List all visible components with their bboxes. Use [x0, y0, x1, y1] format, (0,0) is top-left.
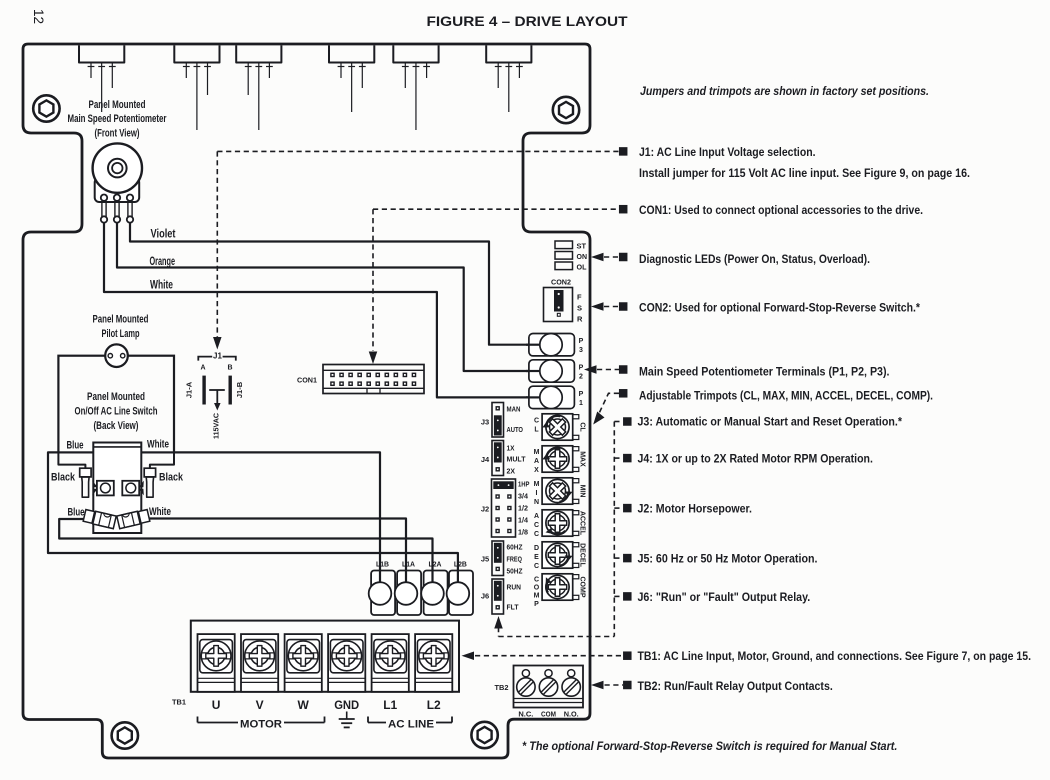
svg-text:L2B: L2B [454, 560, 468, 569]
svg-text:TB1: TB1 [172, 698, 186, 707]
svg-text:FLT: FLT [507, 605, 520, 612]
svg-text:J3: J3 [481, 418, 489, 427]
svg-text:J1-A: J1-A [185, 381, 194, 398]
svg-text:CON1: Used to connect optional: CON1: Used to connect optional accessori… [639, 203, 923, 217]
svg-text:Diagnostic LEDs (Power On, Sta: Diagnostic LEDs (Power On, Status, Overl… [639, 252, 870, 266]
svg-text:M: M [534, 449, 540, 456]
svg-text:TB2: Run/Fault Relay Output Co: TB2: Run/Fault Relay Output Contacts. [638, 679, 833, 693]
svg-text:1HP: 1HP [518, 482, 530, 489]
svg-text:CON2: CON2 [551, 278, 571, 287]
svg-text:L1: L1 [383, 698, 397, 712]
svg-text:FIGURE 4 – DRIVE LAYOUT: FIGURE 4 – DRIVE LAYOUT [427, 14, 629, 29]
svg-text:U: U [212, 698, 221, 712]
svg-text:FREQ: FREQ [507, 557, 523, 564]
svg-text:MAX: MAX [579, 451, 586, 467]
svg-text:A: A [200, 365, 205, 372]
svg-text:50HZ: 50HZ [507, 569, 524, 576]
svg-text:GND: GND [334, 698, 359, 712]
svg-text:115VAC: 115VAC [212, 412, 221, 439]
svg-text:(Back View): (Back View) [94, 420, 139, 432]
svg-text:COM: COM [541, 710, 556, 719]
svg-text:J2: Motor Horsepower.: J2: Motor Horsepower. [638, 502, 753, 516]
svg-text:2X: 2X [507, 469, 516, 476]
svg-text:C: C [534, 417, 539, 424]
svg-text:COMP: COMP [579, 577, 586, 598]
svg-text:Blue: Blue [68, 507, 85, 519]
svg-text:L2A: L2A [429, 560, 443, 569]
svg-text:White: White [150, 280, 173, 292]
svg-text:MULT: MULT [507, 457, 527, 464]
svg-text:(Front View): (Front View) [95, 128, 140, 140]
svg-text:J5: J5 [481, 555, 489, 564]
svg-text:MOTOR: MOTOR [240, 719, 282, 731]
svg-text:Panel Mounted: Panel Mounted [87, 391, 145, 403]
svg-text:Install jumper for 115 Volt AC: Install jumper for 115 Volt AC line inpu… [639, 166, 970, 180]
svg-text:J3: Automatic or Manual Start: J3: Automatic or Manual Start and Reset … [638, 415, 903, 429]
svg-text:Adjustable Trimpots (CL, MAX,: Adjustable Trimpots (CL, MAX, MIN, ACCEL… [639, 389, 933, 403]
svg-text:P: P [579, 391, 584, 398]
svg-text:ST: ST [577, 244, 587, 251]
svg-text:1X: 1X [507, 446, 515, 453]
svg-text:Pilot Lamp: Pilot Lamp [102, 328, 140, 340]
svg-text:C: C [534, 563, 539, 570]
svg-text:TB1: AC Line Input, Motor, Gro: TB1: AC Line Input, Motor, Ground, and c… [638, 649, 1032, 663]
svg-text:L: L [534, 426, 539, 433]
svg-text:J6: J6 [481, 592, 489, 601]
svg-text:J1-B: J1-B [235, 381, 244, 398]
svg-text:J4: 1X or up to 2X Rated Motor: J4: 1X or up to 2X Rated Motor RPM Opera… [638, 452, 873, 466]
svg-text:1/4: 1/4 [518, 518, 528, 525]
svg-text:CON2: Used for optional Forwar: CON2: Used for optional Forward-Stop-Rev… [639, 301, 920, 315]
svg-text:On/Off AC Line Switch: On/Off AC Line Switch [75, 406, 158, 418]
svg-text:White: White [149, 506, 171, 518]
svg-text:C: C [534, 522, 539, 529]
svg-text:12: 12 [31, 9, 46, 24]
svg-text:J4: J4 [481, 455, 490, 464]
svg-text:* The optional Forward-Stop-Re: * The optional Forward-Stop-Reverse Swit… [522, 739, 897, 753]
svg-text:P: P [579, 365, 584, 372]
svg-text:Black: Black [51, 472, 76, 484]
svg-text:Blue: Blue [67, 440, 84, 452]
svg-text:J6: "Run" or "Fault" Output Re: J6: "Run" or "Fault" Output Relay. [638, 590, 811, 604]
svg-text:3: 3 [579, 347, 583, 354]
svg-text:I: I [536, 490, 538, 497]
svg-text:AC LINE: AC LINE [388, 719, 434, 731]
svg-text:1/2: 1/2 [518, 506, 528, 513]
svg-text:S: S [577, 304, 582, 313]
svg-text:P: P [579, 338, 584, 345]
svg-text:DECEL: DECEL [579, 543, 586, 567]
svg-text:Violet: Violet [151, 229, 176, 241]
svg-text:N.O.: N.O. [564, 710, 579, 719]
svg-text:CL: CL [579, 422, 586, 432]
svg-text:Main Speed Potentiometer: Main Speed Potentiometer [68, 113, 168, 125]
svg-text:3/4: 3/4 [518, 494, 528, 501]
svg-text:J1: AC Line Input Voltage sele: J1: AC Line Input Voltage selection. [639, 145, 816, 159]
svg-text:RUN: RUN [507, 585, 522, 592]
svg-text:1: 1 [579, 400, 583, 407]
svg-text:60HZ: 60HZ [507, 545, 524, 552]
svg-text:N.C.: N.C. [518, 710, 533, 719]
svg-text:Main Speed Potentiometer Termi: Main Speed Potentiometer Terminals (P1, … [639, 365, 890, 379]
svg-text:MIN: MIN [579, 485, 586, 498]
svg-text:Jumpers and trimpots are shown: Jumpers and trimpots are shown in factor… [640, 84, 929, 98]
svg-text:B: B [227, 365, 232, 372]
svg-text:M: M [534, 593, 540, 600]
svg-text:1/8: 1/8 [518, 530, 528, 537]
svg-text:MAN: MAN [507, 407, 521, 414]
svg-text:A: A [534, 458, 539, 465]
svg-text:M: M [534, 481, 540, 488]
svg-text:Panel Mounted: Panel Mounted [93, 314, 149, 326]
svg-text:D: D [534, 545, 539, 552]
svg-text:2: 2 [579, 374, 583, 381]
svg-text:F: F [577, 293, 582, 302]
svg-text:C: C [534, 531, 539, 538]
svg-text:J1: J1 [213, 352, 222, 361]
svg-text:CON1: CON1 [297, 376, 317, 385]
svg-text:L2: L2 [427, 698, 441, 712]
svg-text:R: R [577, 315, 583, 324]
svg-text:OL: OL [577, 265, 588, 272]
svg-text:C: C [534, 576, 539, 583]
svg-text:AUTO: AUTO [507, 427, 524, 434]
svg-text:ACCEL: ACCEL [579, 511, 586, 536]
svg-text:Black: Black [159, 472, 184, 484]
svg-text:V: V [256, 698, 264, 712]
svg-text:L1B: L1B [376, 560, 390, 569]
svg-text:E: E [534, 554, 539, 561]
svg-text:N: N [534, 499, 539, 506]
svg-text:X: X [534, 467, 539, 474]
svg-text:A: A [534, 513, 539, 520]
svg-text:TB2: TB2 [495, 683, 509, 692]
svg-text:W: W [298, 698, 310, 712]
svg-text:White: White [147, 439, 169, 451]
svg-text:J5: 60 Hz or 50 Hz Motor Opera: J5: 60 Hz or 50 Hz Motor Operation. [638, 552, 818, 566]
svg-text:ON: ON [577, 254, 588, 261]
svg-text:J2: J2 [481, 505, 489, 514]
svg-text:Panel Mounted: Panel Mounted [89, 99, 146, 111]
svg-text:O: O [534, 585, 540, 592]
svg-text:Orange: Orange [150, 256, 176, 268]
svg-text:P: P [534, 601, 539, 608]
svg-text:L1A: L1A [402, 560, 416, 569]
